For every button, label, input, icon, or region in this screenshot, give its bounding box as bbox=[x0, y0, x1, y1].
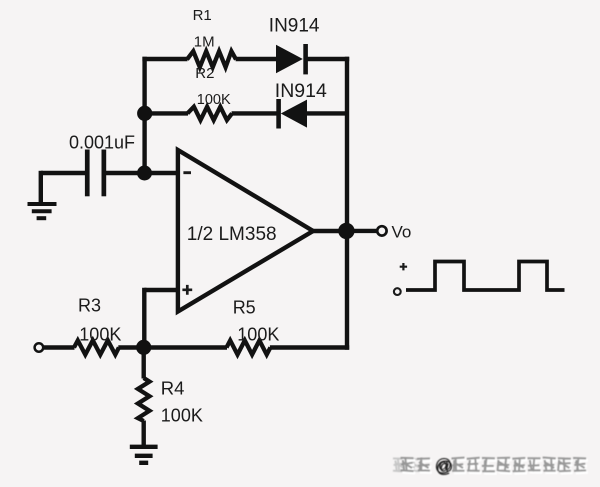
watermark blur filter bbox=[0, 0, 1, 1]
square wave o label bbox=[394, 288, 401, 295]
wire R2 row segment 3 bbox=[307, 111, 348, 115]
op-amp non-inverting input plus sign bbox=[182, 285, 192, 295]
resistor R4 zigzag (vertical) bbox=[138, 378, 150, 421]
wire R4 to ground bbox=[141, 421, 145, 447]
ground symbol at capacitor bar 3 bbox=[37, 216, 47, 220]
svg-text:IN914: IN914 bbox=[269, 15, 320, 36]
wire R5 to right bus bbox=[270, 345, 349, 349]
svg-text:IN914: IN914 bbox=[275, 80, 327, 102]
wire left vertical (top feedback bus) bbox=[142, 57, 146, 175]
capacitor C1 left plate bbox=[85, 150, 90, 197]
watermark white emboss strokes bbox=[402, 460, 588, 474]
ground symbol at R4 bar 1 bbox=[130, 445, 158, 449]
wire input terminal to R3 bbox=[44, 345, 75, 349]
wire R2 row segment 1 bbox=[144, 111, 188, 115]
wire node to inverting input bbox=[145, 171, 179, 175]
svg-text:1M: 1M bbox=[194, 33, 215, 50]
node A (R1/R2 junction) bbox=[137, 106, 152, 121]
op-amp inverting input minus sign bbox=[183, 171, 191, 174]
svg-text:100K: 100K bbox=[79, 325, 121, 345]
input terminal circle bbox=[35, 343, 44, 352]
wire node to R4 bbox=[141, 348, 145, 379]
wire op-amp output bbox=[313, 229, 348, 233]
resistor R1 zigzag bbox=[187, 51, 236, 67]
ground symbol at capacitor bar 2 bbox=[32, 209, 52, 213]
wire R2 row segment 2 bbox=[232, 111, 278, 115]
svg-text:100K: 100K bbox=[197, 92, 231, 108]
ground symbol at R4 bar 3 bbox=[139, 461, 148, 465]
wire ground stub at capacitor bbox=[39, 171, 43, 203]
wire non-inverting input horizontal bbox=[144, 288, 178, 292]
resistor R2 zigzag bbox=[188, 107, 233, 120]
wire capacitor left lead bbox=[41, 171, 85, 175]
resistor R5 zigzag bbox=[227, 340, 271, 354]
svg-text:1/2 LM358: 1/2 LM358 bbox=[187, 224, 277, 245]
diode D2 IN914 triangle bbox=[281, 100, 307, 128]
svg-text:100K: 100K bbox=[161, 406, 203, 426]
svg-text:R4: R4 bbox=[161, 378, 185, 399]
svg-text:R3: R3 bbox=[78, 295, 101, 315]
wire R3 to node bbox=[118, 345, 145, 349]
svg-text:R1: R1 bbox=[193, 7, 212, 24]
svg-text:100K: 100K bbox=[237, 325, 279, 345]
op-amp U1 triangle bbox=[178, 150, 313, 312]
resistor R3 zigzag bbox=[74, 340, 119, 354]
ground symbol at R4 bar 2 bbox=[135, 454, 153, 458]
capacitor C1 right plate bbox=[102, 150, 107, 197]
svg-text:@: @ bbox=[435, 455, 453, 475]
wire node to R5 bbox=[145, 345, 228, 349]
diode D1 cathode bar bbox=[303, 44, 308, 74]
diode D1 IN914 triangle bbox=[276, 45, 303, 73]
wire top row segment 1 bbox=[142, 57, 187, 61]
node D (R3/R4/R5 junction) bbox=[136, 340, 151, 355]
svg-text:Vo: Vo bbox=[392, 222, 412, 241]
watermark ghost strokes bbox=[393, 458, 423, 472]
wire Vo stub bbox=[346, 229, 377, 233]
wire right vertical bus bbox=[345, 57, 349, 350]
svg-text:0.001uF: 0.001uF bbox=[69, 133, 135, 153]
wire non-inverting input vertical bbox=[142, 288, 146, 349]
watermark gray strokes bbox=[401, 458, 587, 472]
output terminal circle Vo bbox=[377, 226, 386, 235]
wire top row segment 3 bbox=[307, 57, 349, 61]
wire top row segment 2 bbox=[236, 57, 277, 61]
wire capacitor right lead to node bbox=[106, 171, 146, 175]
ground symbol at capacitor bar 1 bbox=[28, 202, 57, 206]
node C (op-amp output) bbox=[338, 223, 354, 239]
square wave plus label bbox=[400, 263, 407, 270]
node B (capacitor / inverting input) bbox=[137, 166, 152, 181]
diode D2 cathode bar bbox=[276, 99, 281, 129]
svg-text:R5: R5 bbox=[233, 298, 256, 318]
svg-text:R2: R2 bbox=[195, 65, 214, 82]
square wave waveform bbox=[406, 262, 565, 291]
